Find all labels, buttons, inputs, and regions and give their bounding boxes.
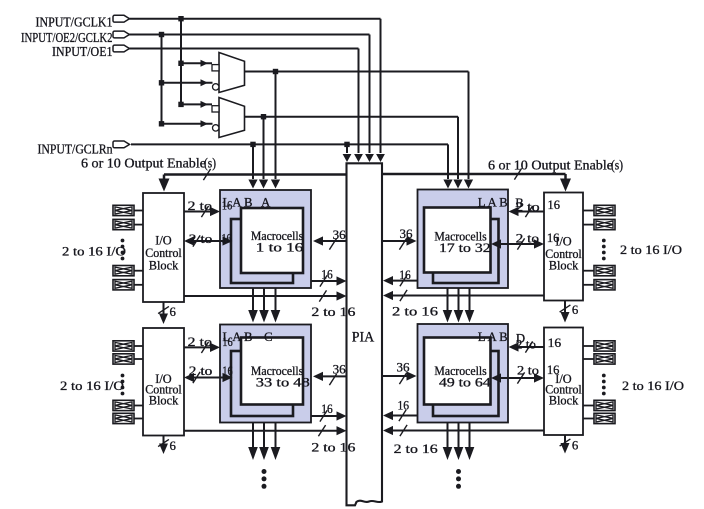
svg-text:(s): (s)	[611, 157, 623, 172]
junction GCLRn/LAB-A drop	[250, 142, 255, 147]
svg-text:C: C	[264, 330, 273, 344]
mux M2 input 1 notch	[212, 106, 219, 112]
mux M1 input 2 wire	[162, 79, 213, 86]
label 2 to 16 (A1)	[188, 199, 233, 214]
svg-text:16: 16	[398, 399, 410, 413]
svg-text:2 to 16 I/O: 2 to 16 I/O	[60, 379, 124, 393]
mux M2 input 2 wire	[162, 120, 213, 127]
svg-text:2 to: 2 to	[189, 232, 213, 246]
wire 2-to-16 IO2 to PIA	[383, 290, 544, 301]
wire 2-to-16 IO1 to LAB A	[184, 206, 220, 217]
wire 2-to-16 IO4 to LAB D	[509, 341, 545, 352]
svg-text:A: A	[261, 195, 271, 209]
svg-text:INPUT/OE2/GCLK2: INPUT/OE2/GCLK2	[21, 30, 113, 45]
mux M1 input 1 wire	[181, 60, 212, 67]
wire 36 PIA to LAB A	[313, 236, 347, 249]
svg-text:2 to 16: 2 to 16	[394, 442, 439, 456]
svg-text:2 to 16 I/O: 2 to 16 I/O	[620, 243, 682, 257]
wires LAB B to LAB D	[443, 288, 475, 323]
junction GCLRn/PIA drop	[344, 142, 349, 147]
wire 6 IO1 to IO3	[0, 0, 1, 1]
label 2 to 16 (D1)	[516, 336, 562, 351]
svg-text:33 to 48: 33 to 48	[256, 376, 310, 390]
svg-text:16: 16	[548, 336, 562, 350]
wire M2 output to LAB A	[259, 117, 268, 189]
wire GCLK2 vertical drop	[161, 35, 163, 124]
LAB D label	[478, 330, 525, 345]
I/O pins top-left	[113, 205, 143, 290]
svg-text:6: 6	[572, 439, 579, 453]
svg-text:1 to 16: 1 to 16	[256, 241, 303, 255]
LAB B block	[418, 190, 509, 289]
I/O pins bottom-left	[113, 341, 143, 424]
svg-text:16: 16	[222, 364, 233, 378]
svg-text:6: 6	[170, 439, 177, 453]
svg-text:2 to: 2 to	[516, 232, 540, 246]
wire 16 LAB C to PIA	[311, 410, 347, 421]
LAB B label	[478, 196, 524, 211]
svg-text:Block: Block	[149, 394, 179, 408]
I/O control block 3 (bottom-left)	[143, 328, 184, 436]
junction GCLK2/M1-in2	[159, 80, 164, 85]
svg-text:49 to 64: 49 to 64	[439, 376, 491, 390]
mux M1 input 1 notch	[212, 65, 219, 71]
svg-text:2 to: 2 to	[515, 200, 540, 214]
svg-text:PIA: PIA	[352, 329, 375, 345]
svg-text:2 to 16: 2 to 16	[392, 305, 439, 319]
junction GCLK1/vertical	[178, 16, 183, 21]
svg-text:2 to 16: 2 to 16	[311, 441, 356, 455]
wires LAB C continuation down	[248, 423, 280, 461]
wire mux M2 output	[245, 117, 463, 189]
svg-text:16: 16	[548, 198, 561, 212]
wire 16 LAB B to PIA	[383, 275, 418, 286]
wire GCLK2	[130, 35, 374, 163]
svg-text:17 to 32: 17 to 32	[439, 241, 491, 255]
LAB A label	[223, 195, 272, 209]
I/O pins top-right	[583, 205, 615, 290]
wire 2-to-16 bidir IO1/LAB A	[184, 235, 233, 246]
svg-text:16: 16	[399, 268, 411, 282]
wire M1 output to LAB A	[271, 72, 280, 189]
label 2 to 16 (C2)	[189, 364, 233, 378]
svg-text:2 to: 2 to	[516, 337, 536, 351]
ellipsis I/O bottom-right	[602, 374, 606, 378]
ellipsis below LAB D	[456, 469, 461, 474]
wire output enables right	[382, 168, 571, 191]
wire 6 IO4 down	[560, 435, 571, 454]
svg-text:6: 6	[572, 303, 579, 317]
junction GCLK2/M2-in2	[159, 121, 164, 126]
svg-text:16: 16	[547, 231, 560, 245]
svg-text:2 to 16: 2 to 16	[311, 305, 356, 319]
wire GCLRn	[131, 144, 453, 188]
macrocells 1 to 16	[251, 229, 303, 255]
svg-text:Block: Block	[549, 394, 579, 408]
svg-text:6 or 10 Output Enable: 6 or 10 Output Enable	[81, 156, 206, 171]
svg-text:2 to 16 I/O: 2 to 16 I/O	[622, 379, 684, 393]
svg-text:16: 16	[222, 199, 233, 213]
ellipsis I/O bottom-left	[121, 374, 125, 378]
wire 36 PIA to LAB C	[313, 372, 347, 385]
svg-text:2 to: 2 to	[189, 364, 213, 378]
I/O control block 4 (bottom-right)	[544, 328, 583, 436]
wire 16 LAB A to PIA	[311, 275, 347, 286]
ellipsis I/O top-right	[602, 239, 606, 243]
LAB A block	[220, 190, 311, 288]
wire GCLRn to PIA	[343, 144, 352, 162]
wire GCLK1	[130, 19, 385, 162]
label 2 to 16 (B1)	[515, 198, 560, 214]
svg-text:2 to: 2 to	[188, 335, 213, 349]
LAB C label	[223, 330, 273, 344]
wire 2-to-16 bidir IO3/LAB C	[184, 372, 233, 383]
LAB D block	[418, 324, 509, 423]
svg-text:Block: Block	[549, 258, 579, 272]
svg-text:INPUT/GCLK1: INPUT/GCLK1	[36, 15, 113, 30]
svg-text:6 or 10 Output Enable: 6 or 10 Output Enable	[488, 157, 613, 172]
svg-text:Block: Block	[149, 259, 179, 273]
svg-text:L A B: L A B	[478, 330, 508, 344]
svg-text:36: 36	[397, 361, 411, 375]
svg-text:(s): (s)	[204, 156, 216, 171]
wire mux M1 output	[245, 72, 474, 189]
svg-text:6: 6	[170, 305, 177, 319]
svg-text:L A B: L A B	[478, 196, 508, 210]
mux M2 input 2 bubble	[213, 125, 219, 131]
junction GCLK1/M1-in1	[178, 61, 183, 66]
ellipsis I/O top-left	[121, 239, 125, 243]
wire 2-to-16 IO3 to PIA	[184, 425, 347, 436]
svg-text:16: 16	[547, 363, 560, 377]
junction GCLK2/vertical	[159, 32, 164, 37]
mux M2 input 1 wire	[181, 101, 212, 108]
wire 2-to-16 IO3 to LAB C	[184, 342, 220, 353]
wire 16 LAB D to PIA	[383, 410, 418, 421]
label 2 to 16 (A2)	[189, 232, 232, 246]
wire 2-to-16 IO2 to LAB B	[509, 206, 545, 217]
svg-text:36: 36	[333, 228, 347, 242]
wire 36 PIA to LAB D	[382, 371, 417, 384]
wire 6 IO3 down	[158, 436, 169, 455]
I/O pins bottom-right	[583, 341, 615, 424]
LAB C block	[220, 325, 311, 423]
svg-text:16: 16	[321, 268, 333, 282]
macrocells 49 to 64	[434, 364, 490, 389]
wire GCLK1 vertical drop	[180, 19, 182, 105]
junction GCLK1/M2-in1	[178, 102, 183, 107]
svg-text:36: 36	[333, 363, 347, 377]
svg-text:2 to: 2 to	[188, 199, 213, 213]
mux M1 input 2 bubble	[213, 84, 219, 90]
wire 2-to-16 IO1 to PIA	[184, 290, 347, 301]
wire output enables left	[159, 169, 347, 192]
junction M2 output/LAB-A drop	[261, 114, 266, 119]
svg-text:INPUT/GCLRn: INPUT/GCLRn	[38, 142, 113, 157]
label 6 or 10 Output Enables left	[81, 156, 216, 171]
svg-text:36: 36	[400, 227, 414, 241]
mux M2	[219, 98, 245, 138]
wires LAB A to LAB C	[248, 288, 280, 323]
svg-text:16: 16	[222, 335, 233, 349]
wire 36 PIA to LAB B	[382, 236, 417, 249]
input pin INPUT/GCLK1	[36, 15, 130, 30]
svg-text:2 to: 2 to	[517, 364, 539, 378]
wire 2-to-16 bidir IO4/LAB D	[491, 372, 544, 383]
ellipsis below LAB C	[262, 469, 267, 474]
label 2 to 16 (B2)	[516, 231, 560, 246]
PIA block	[347, 163, 383, 505]
wire OE1	[130, 49, 363, 163]
macrocells 17 to 32	[434, 230, 490, 255]
wire 6 IO2 down	[560, 301, 571, 323]
junction M1 output/LAB-A drop	[273, 69, 278, 74]
svg-text:16: 16	[321, 402, 333, 416]
wire 2-to-16 IO4 to PIA	[383, 425, 544, 436]
label 2 to 16 (D2)	[517, 363, 560, 377]
I/O control block 1 (top-left)	[143, 193, 184, 302]
wire 2-to-16 bidir IO2/LAB B	[491, 238, 544, 249]
svg-text:16: 16	[222, 232, 232, 246]
wire 6 IO1 down	[158, 302, 169, 324]
macrocells 33 to 48	[251, 364, 310, 390]
label 2 to 16 (C1)	[188, 335, 234, 349]
label 6 or 10 Output Enables right	[488, 157, 623, 172]
svg-text:INPUT/OE1: INPUT/OE1	[52, 44, 113, 59]
wire GCLRn to LAB A	[248, 144, 257, 188]
wires LAB D continuation down	[443, 423, 475, 461]
input pin INPUT/OE2/GCLK2	[21, 30, 130, 45]
svg-text:2 to 16 I/O: 2 to 16 I/O	[62, 244, 126, 258]
I/O control block 2 (top-right)	[544, 193, 583, 301]
input pin INPUT/OE1	[52, 44, 130, 59]
mux M1	[219, 53, 245, 93]
